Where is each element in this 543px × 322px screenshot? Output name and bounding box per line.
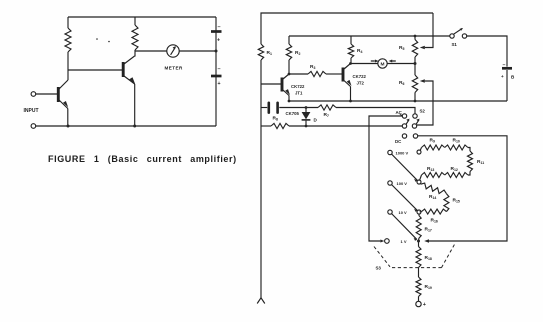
svg-text:R6: R6 [399,80,404,86]
svg-text:R13: R13 [427,166,434,172]
svg-text:FIGURE 1 (Basic current amplif: FIGURE 1 (Basic current amplifier) [48,154,237,164]
svg-text:R15: R15 [453,198,460,204]
svg-text:R8: R8 [273,116,278,122]
svg-text:CK722: CK722 [291,84,305,89]
svg-text:M: M [381,61,385,67]
svg-text:R2: R2 [295,50,300,56]
svg-text:S3: S3 [376,266,382,271]
svg-text:CK722: CK722 [353,74,367,79]
svg-text:100 V: 100 V [397,181,408,186]
svg-text:METER: METER [165,66,184,71]
svg-text:+: + [423,302,427,308]
svg-text:INPUT: INPUT [24,108,39,114]
svg-text:R18: R18 [425,255,432,261]
svg-text:S2: S2 [420,109,426,114]
svg-text:DC: DC [395,139,402,144]
svg-text:R9: R9 [430,138,435,144]
svg-text:R17: R17 [425,227,432,233]
svg-text:–: – [218,25,221,31]
svg-text:R19: R19 [425,284,432,290]
svg-text:+: + [217,38,220,44]
svg-text:1 V: 1 V [401,239,407,244]
svg-text:R14: R14 [429,194,436,200]
svg-text:R1: R1 [267,50,272,56]
svg-text:R12: R12 [451,166,458,172]
svg-text:CK705: CK705 [286,111,300,116]
svg-text:JT1: JT1 [295,91,303,96]
svg-text:B: B [511,75,515,80]
svg-text:R11: R11 [477,159,484,165]
svg-text:1000 V: 1000 V [396,151,409,156]
svg-text:JT2: JT2 [357,81,365,86]
svg-text:D: D [314,118,318,123]
svg-text:R5: R5 [399,45,404,51]
svg-text:–: – [503,63,506,69]
svg-text:+: + [218,81,221,87]
svg-text:R3: R3 [310,64,315,70]
svg-text:+: + [501,74,504,79]
svg-text:R7: R7 [324,112,329,118]
svg-text:S1: S1 [452,42,458,47]
svg-text:AC: AC [396,110,403,115]
svg-text:R16: R16 [431,218,438,224]
svg-text:R4: R4 [357,48,362,54]
svg-text:R10: R10 [453,138,460,144]
svg-text:–: – [218,67,221,73]
svg-text:10 V: 10 V [399,210,408,215]
